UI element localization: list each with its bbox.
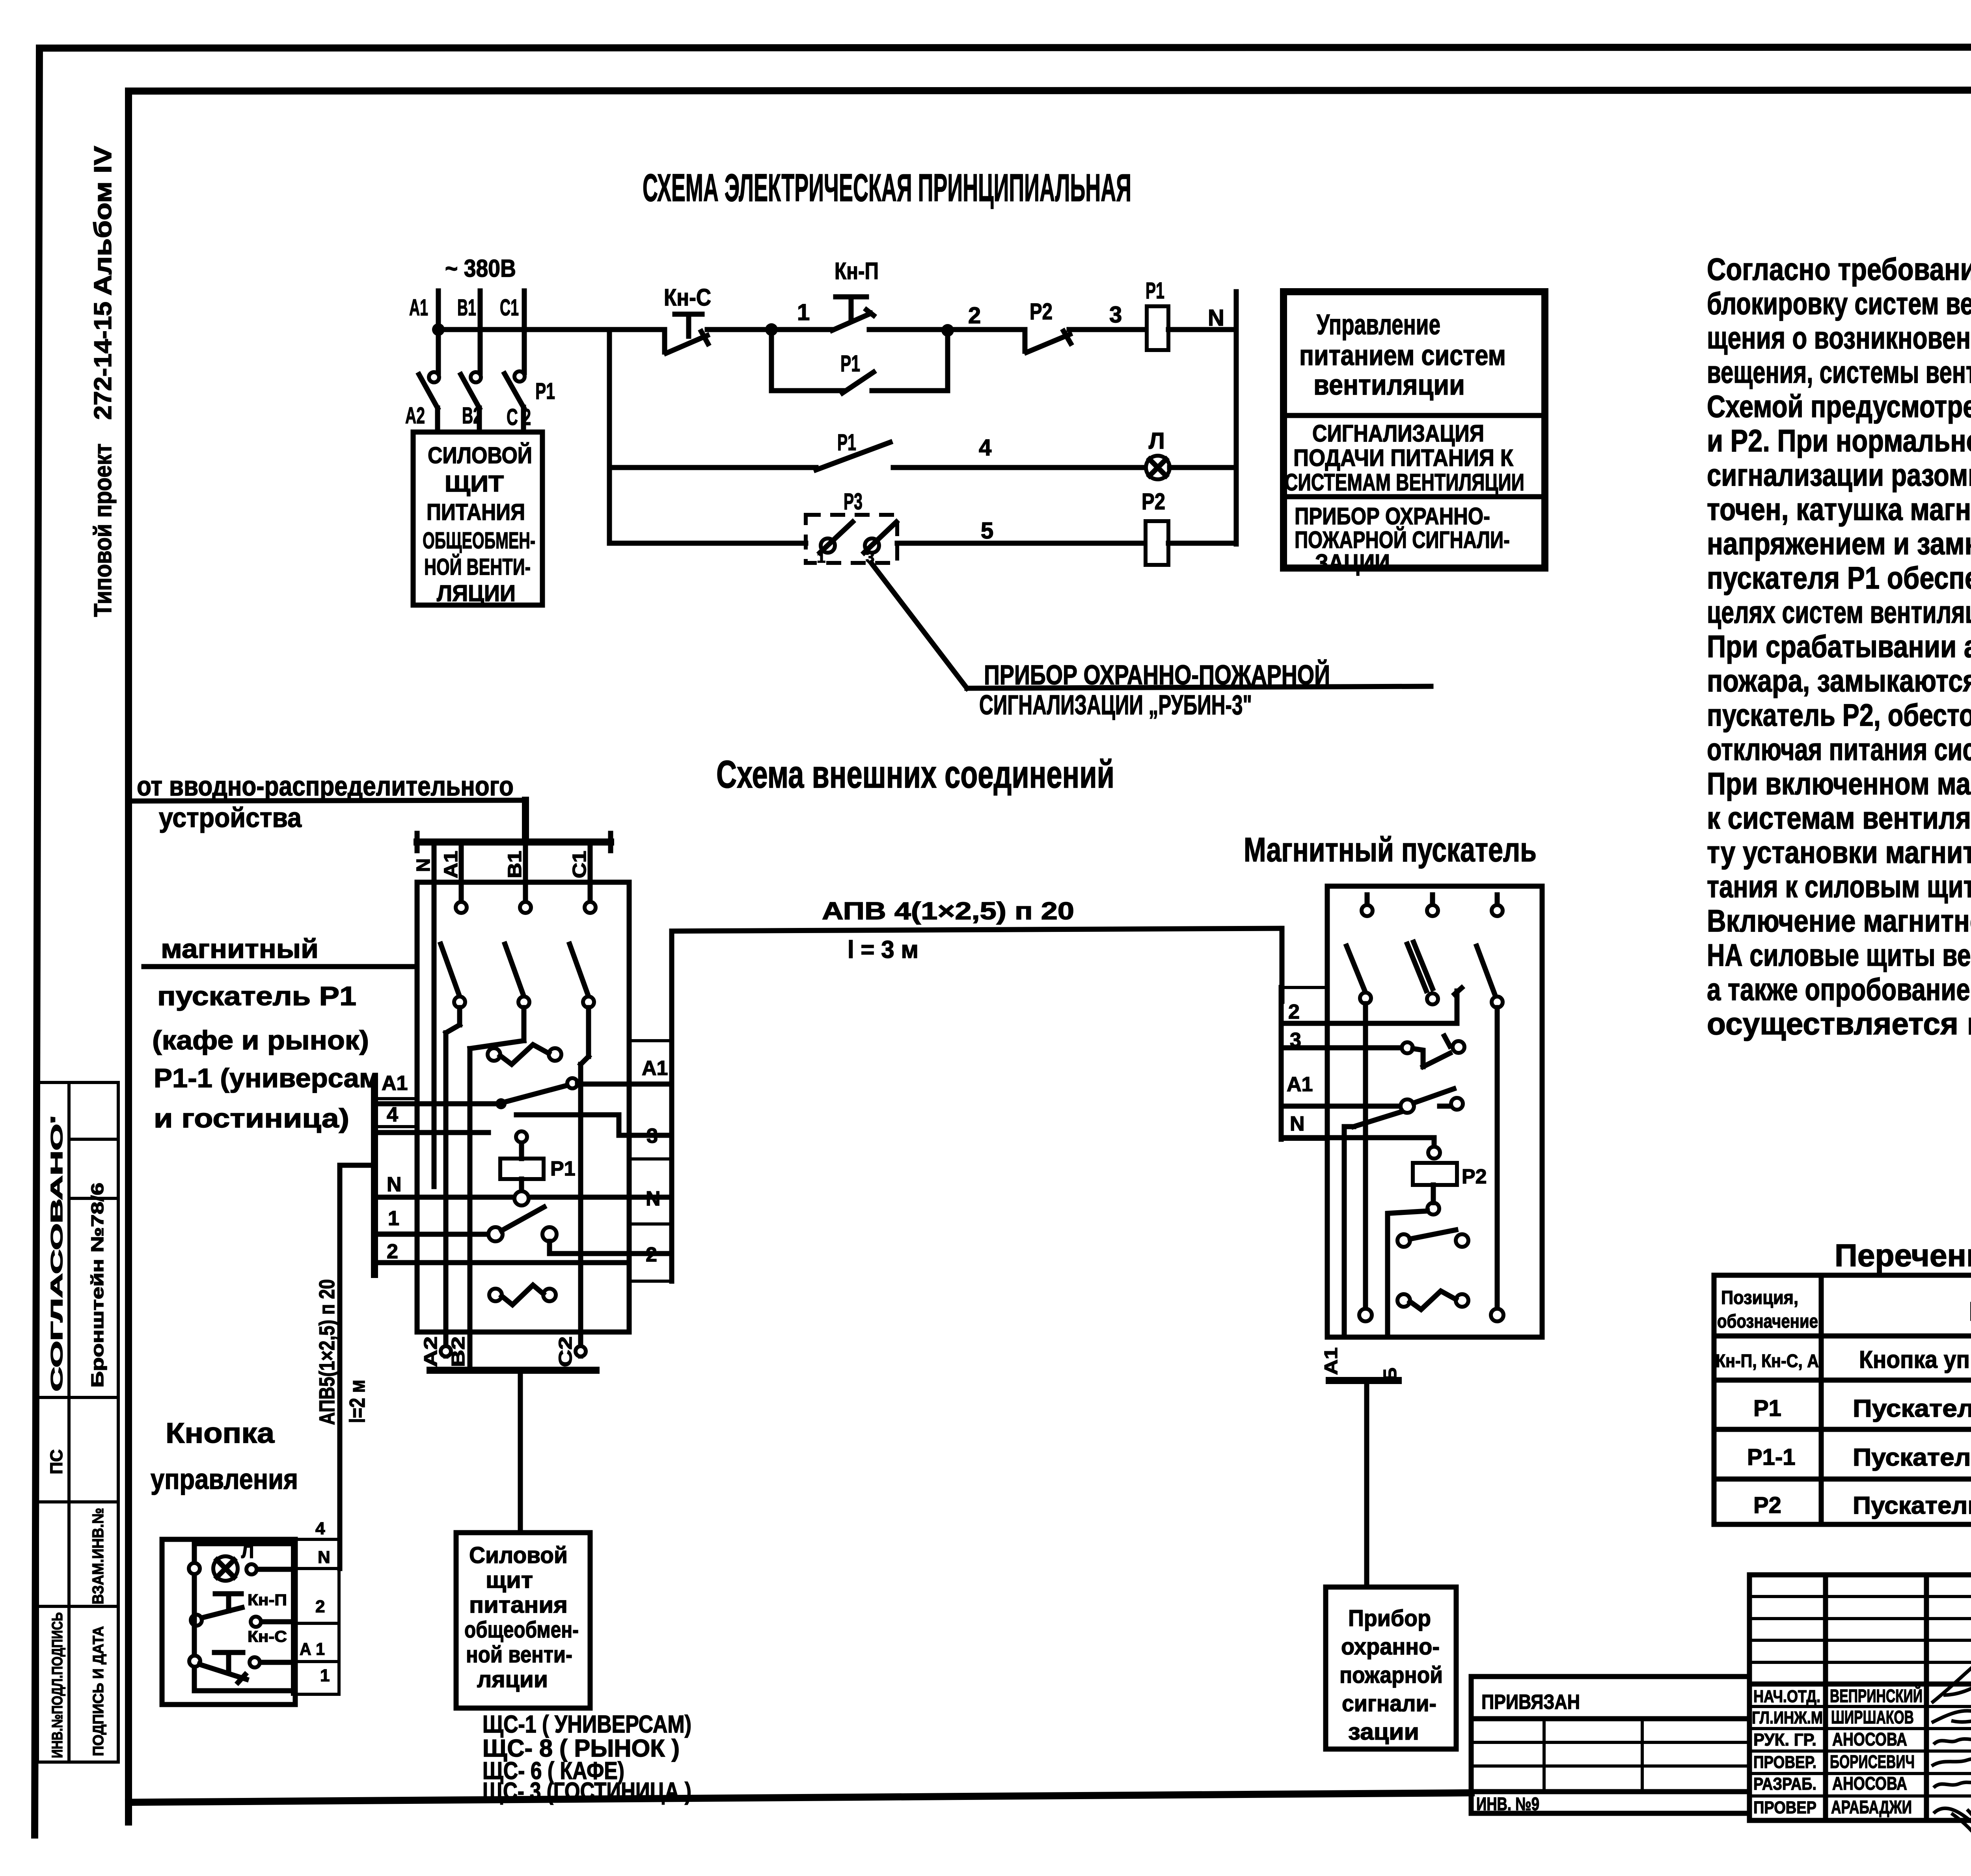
svg-text:щения о возникновении пожара П: щения о возникновении пожара При срабаты…: [1707, 320, 1971, 355]
description text block: [1707, 251, 1971, 1041]
contactor P1 pole C: [505, 371, 555, 432]
svg-text:пускатель Р1: пускатель Р1: [157, 981, 356, 1011]
svg-text:А2: А2: [420, 1336, 441, 1367]
title: Магнитный пускатель: [1244, 831, 1537, 869]
power cabinet box (external scheme): [456, 1533, 590, 1708]
svg-text:Схемой предусмотрена установка: Схемой предусмотрена установка магнитных…: [1707, 389, 1971, 424]
svg-text:Кн-С: Кн-С: [664, 284, 711, 311]
aux contact NO bottom: [1397, 1230, 1468, 1247]
svg-text:ЩИТ: ЩИТ: [445, 471, 504, 497]
svg-text:щит: щит: [486, 1567, 533, 1593]
svg-text:Схема внешних соединений: Схема внешних соединений: [716, 753, 1114, 796]
svg-text:к системам вентиляции постоян: к системам вентиляции постоянно горит ла…: [1707, 800, 1971, 835]
svg-text:Пускатель магнитный: Пускатель магнитный: [1853, 1444, 1971, 1471]
node N: [1208, 305, 1224, 331]
svg-text:4: 4: [979, 435, 991, 460]
bus drop B1: [505, 842, 525, 902]
svg-text:ПС: ПС: [47, 1449, 66, 1474]
svg-text:от вводно-распределительного: от вводно-распределительного: [137, 771, 514, 801]
svg-text:1: 1: [388, 1207, 399, 1230]
svg-text:2: 2: [968, 303, 981, 328]
svg-text:ту установки магнитных пуска: ту установки магнитных пускателей. При о…: [1707, 835, 1971, 870]
svg-text:пожарной: пожарной: [1339, 1662, 1443, 1688]
svg-text:СИСТЕМАМ ВЕНТИЛЯЦИИ: СИСТЕМАМ ВЕНТИЛЯЦИИ: [1285, 469, 1524, 496]
label: Кнопка управления: [151, 1418, 298, 1495]
lamp L: [1146, 428, 1236, 479]
table row Kn-P Kn-C A: [1716, 1346, 1971, 1376]
svg-text:5: 5: [981, 518, 993, 544]
svg-text:охранно-: охранно-: [1341, 1634, 1440, 1660]
aux contact pair bottom: [489, 1285, 556, 1305]
label: from input-distribution device: [134, 771, 525, 833]
net ~380V label: [445, 255, 516, 282]
contactor P1 pole B: [461, 372, 482, 432]
bus drop C1: [569, 842, 590, 902]
svg-text:N: N: [646, 1187, 661, 1210]
control button box: [162, 1539, 295, 1705]
svg-text:2: 2: [1288, 1000, 1300, 1023]
equipment table grid: [1714, 1275, 1971, 1524]
svg-text:1: 1: [817, 549, 825, 566]
svg-text:ЩС-1 ( УНИВЕРСАМ): ЩС-1 ( УНИВЕРСАМ): [483, 1711, 691, 1738]
svg-text:ЩС- 3 (ГОСТИНИЦА ): ЩС- 3 (ГОСТИНИЦА ): [483, 1778, 691, 1805]
button box internal common wire: [194, 1576, 292, 1691]
svg-text:А1: А1: [382, 1072, 408, 1095]
svg-text:питанием систем: питанием систем: [1299, 340, 1506, 371]
svg-text:Альбом IV: Альбом IV: [89, 146, 117, 296]
svg-text:Пускатель магнитный: Пускатель магнитный: [1853, 1492, 1971, 1519]
signatures: [1932, 1600, 1971, 1853]
svg-text:и гостиница): и гостиница): [154, 1103, 349, 1133]
svg-text:С 2: С 2: [507, 404, 531, 430]
bus drop N: [413, 842, 434, 1187]
changeover aux contact row A1: [374, 1078, 672, 1109]
contact P2 (NC): [1025, 299, 1147, 352]
svg-text:2: 2: [387, 1240, 398, 1263]
svg-text:Прибор: Прибор: [1348, 1606, 1431, 1631]
svg-text:ПИТАНИЯ: ПИТАНИЯ: [427, 499, 525, 525]
wire to alarm device: [1364, 1380, 1369, 1587]
svg-text:а также опробование магнитны: а также опробование магнитных пускателей…: [1707, 972, 1971, 1007]
svg-text:N: N: [387, 1173, 402, 1196]
svg-text:точен, катушка магнитного пу: точен, катушка магнитного пускателя Р1 н…: [1707, 492, 1971, 527]
svg-text:напряжением и замкнутые блок: напряжением и замкнутые блоконтакты магн…: [1707, 526, 1971, 561]
svg-text:РАЗРАБ.: РАЗРАБ.: [1753, 1774, 1816, 1794]
svg-text:В1: В1: [505, 851, 525, 878]
table row P1-1: [1747, 1440, 1971, 1481]
list ShchS panels: [483, 1711, 691, 1805]
svg-text:Р1: Р1: [1146, 278, 1164, 304]
table header row: [1717, 1287, 1971, 1332]
svg-text:пускателя Р1 обеспечивают по: пускателя Р1 обеспечивают подачу питания…: [1707, 560, 1971, 595]
svg-text:ИНВ.№ПОДЛ.ПОДПИСЬ: ИНВ.№ПОДЛ.ПОДПИСЬ: [49, 1612, 66, 1758]
svg-text:СИЛОВОЙ: СИЛОВОЙ: [428, 443, 532, 468]
row 3 aux contact: [1283, 1036, 1464, 1067]
coil P1: [1146, 278, 1236, 350]
svg-text:l = 3 м: l = 3 м: [848, 936, 918, 963]
svg-text:Бронштейн №78/6: Бронштейн №78/6: [88, 1183, 107, 1388]
svg-text:Кн-П, Кн-С, А: Кн-П, Кн-С, А: [1716, 1351, 1819, 1371]
svg-text:ляции: ляции: [477, 1667, 548, 1692]
row A1 aux contact NO: [1283, 1089, 1463, 1113]
svg-text:272-14-15: 272-14-15: [89, 302, 117, 420]
svg-text:ОБЩЕОБМЕН-: ОБЩЕОБМЕН-: [423, 528, 535, 553]
svg-text:Р1: Р1: [535, 378, 555, 404]
svg-text:Кн-С: Кн-С: [248, 1628, 287, 1645]
svg-text:СИГНАЛИЗАЦИЯ: СИГНАЛИЗАЦИЯ: [1312, 420, 1484, 447]
starter P2 box: [1327, 886, 1542, 1337]
svg-text:ПРИБОР ОХРАННО-: ПРИБОР ОХРАННО-: [1295, 503, 1490, 529]
margin vertical text: Типовой проект 272-14-15 Альбом IV: [89, 146, 117, 617]
svg-text:Р2: Р2: [1462, 1165, 1487, 1188]
svg-text:устройства: устройства: [159, 802, 302, 833]
svg-text:ПРИБОР ОХРАННО-ПОЖАРНОЙ: ПРИБОР ОХРАННО-ПОЖАРНОЙ: [984, 659, 1330, 690]
title block names: [1830, 1686, 1923, 1817]
starter P1 box: [417, 882, 629, 1332]
svg-text:Перечень приборов и аппарат: Перечень приборов и аппаратуры: [1835, 1238, 1971, 1273]
svg-text:АПВ5(1×2,5) п 20: АПВ5(1×2,5) п 20: [315, 1279, 339, 1425]
starter P1 pole A: [441, 902, 467, 1356]
privyazan box: [1471, 1677, 1749, 1814]
svg-text:вентиляции: вентиляции: [1313, 369, 1465, 401]
svg-text:НАЧ.ОТД.: НАЧ.ОТД.: [1753, 1687, 1820, 1706]
svg-text:Магнитный пускатель: Магнитный пускатель: [1244, 831, 1537, 869]
bus drop A1: [441, 842, 462, 902]
svg-text:ной венти-: ной венти-: [466, 1642, 572, 1667]
svg-text:БОРИСЕВИЧ: БОРИСЕВИЧ: [1830, 1751, 1915, 1772]
svg-text:вещения, системы вентиляции о: вещения, системы вентиляции отключаются: [1707, 354, 1971, 389]
power cabinet box: [413, 432, 542, 606]
svg-text:А1: А1: [1287, 1073, 1313, 1096]
svg-text:l=2 м: l=2 м: [345, 1380, 369, 1423]
wires to bottom bus: [1321, 1347, 1400, 1380]
aux throw lower: [374, 1115, 672, 1135]
outer sheet border left: [35, 48, 39, 1835]
P2 left terminal strip: [1281, 987, 1327, 1139]
cable APV5 to button: [315, 1165, 374, 1569]
label Rubin-3: [979, 659, 1330, 720]
coil P1 in box: [500, 1131, 576, 1191]
P2 pole B: [1407, 895, 1438, 1004]
svg-text:С1: С1: [569, 851, 590, 878]
wire phase A1: [409, 291, 438, 373]
svg-text:тания к силовым щитам венти: тания к силовым щитам вентиляции, лампа …: [1707, 869, 1971, 904]
pushbutton Kn-P (NO): [832, 258, 948, 330]
svg-text:ПОЖАРНОЙ СИГНАЛИ-: ПОЖАРНОЙ СИГНАЛИ-: [1295, 527, 1510, 553]
interconnecting wire APV4: [672, 898, 1282, 1001]
svg-text:Л: Л: [1149, 428, 1165, 454]
P2 pole A: [1347, 895, 1373, 1309]
wire row 5: [609, 518, 993, 544]
svg-text:N: N: [1290, 1112, 1305, 1135]
svg-text:Р1-1: Р1-1: [1747, 1444, 1796, 1470]
svg-text:А1: А1: [642, 1057, 668, 1080]
label: magnetic starter P1: [144, 934, 417, 1133]
svg-text:3: 3: [646, 1125, 658, 1148]
svg-text:При включенном магнитном пус: При включенном магнитном пускателе Р1 и …: [1707, 766, 1971, 801]
svg-text:управления: управления: [151, 1464, 298, 1495]
fire alarm device box: [1326, 1587, 1456, 1749]
svg-text:Позиция,: Позиция,: [1721, 1287, 1798, 1308]
svg-text:СИГНАЛИЗАЦИИ „РУБИН-3": СИГНАЛИЗАЦИИ „РУБИН-3": [979, 689, 1252, 720]
svg-text:Р1-1 (универсам: Р1-1 (универсам: [154, 1063, 380, 1093]
node 2: [948, 303, 1025, 330]
svg-text:В1: В1: [457, 295, 476, 320]
lamp L in button box: [189, 1541, 292, 1581]
svg-text:С1: С1: [500, 295, 519, 320]
contactor P1 pole A: [405, 372, 439, 432]
pushbutton Kn-C (NC): [664, 284, 771, 353]
title: Схема электрическая принципиальная: [643, 166, 1131, 209]
svg-text:РУК. ГР.: РУК. ГР.: [1753, 1730, 1816, 1749]
svg-text:Кн-П: Кн-П: [248, 1591, 287, 1609]
svg-text:Кнопка управления с лампой: Кнопка управления с лампой: [1859, 1346, 1971, 1373]
svg-text:ВЕПРИНСКИЙ: ВЕПРИНСКИЙ: [1830, 1686, 1923, 1706]
button Kn-P in box: [191, 1591, 292, 1627]
svg-text:N: N: [413, 858, 434, 872]
title: Схема внешних соединений: [716, 753, 1114, 796]
svg-text:АНОСОВА: АНОСОВА: [1832, 1773, 1907, 1794]
svg-text:Силовой: Силовой: [469, 1543, 568, 1568]
svg-text:Кнопка: Кнопка: [166, 1418, 275, 1449]
svg-text:N: N: [1208, 305, 1224, 331]
changeover common wire: [1344, 1112, 1402, 1337]
feeder wire: [522, 800, 529, 842]
row 2 wire: [1283, 988, 1462, 1023]
coil P2: [1142, 489, 1236, 565]
svg-text:1: 1: [797, 300, 810, 325]
svg-text:СОГЛАСОВАНО': СОГЛАСОВАНО': [47, 1116, 66, 1392]
svg-text:Согласно требованиям СНиП- 33: Согласно требованиям СНиП- 33-75 п. 1.7 …: [1707, 251, 1971, 287]
svg-text:Кн-П: Кн-П: [835, 258, 879, 284]
svg-text:сигнализации разомкнуты, магни: сигнализации разомкнуты, магнитный пуска…: [1707, 457, 1971, 492]
svg-text:отключая питания систем вен: отключая питания систем вентиляции.: [1707, 732, 1971, 767]
node junction 1: [765, 300, 832, 336]
svg-text:Р2: Р2: [1142, 489, 1165, 514]
equipment table title: [1835, 1238, 1971, 1273]
row N wire to coil: [1283, 1138, 1440, 1159]
svg-text:Р1: Р1: [1753, 1395, 1781, 1421]
aux contact NO mid: [488, 1045, 561, 1064]
svg-text:Пускатель магнитный: Пускатель магнитный: [1853, 1395, 1971, 1422]
svg-text:Р2: Р2: [1030, 299, 1053, 324]
svg-text:ИНВ. №9: ИНВ. №9: [1476, 1794, 1539, 1814]
svg-text:С2: С2: [555, 1336, 576, 1367]
button Kn-C in box: [189, 1628, 292, 1682]
main control rail: [432, 323, 665, 336]
supply bus bar: [417, 833, 611, 851]
svg-text:ВЗАМ.ИНВ.№: ВЗАМ.ИНВ.№: [89, 1508, 107, 1604]
wire row 4 left: [609, 330, 816, 543]
svg-text:В2: В2: [462, 403, 482, 428]
right terminal strip of P1 box: [629, 931, 672, 1281]
svg-text:А1: А1: [409, 295, 428, 320]
svg-text:ПОДАЧИ ПИТАНИЯ К: ПОДАЧИ ПИТАНИЯ К: [1293, 445, 1513, 471]
svg-text:ГЛ.ИНЖ.М: ГЛ.ИНЖ.М: [1752, 1708, 1823, 1727]
svg-text:общеобмен-: общеобмен-: [464, 1617, 579, 1643]
outer sheet border top: [39, 47, 1971, 48]
title block role labels: [1752, 1687, 1823, 1817]
svg-text:питания: питания: [469, 1592, 568, 1618]
function boxes right: [1284, 292, 1545, 576]
svg-text:Управление: Управление: [1317, 309, 1440, 341]
button box terminal strip: [292, 1519, 339, 1694]
coil P2 in box: [1388, 1163, 1487, 1337]
svg-text:пускатель Р2, обесточивается м: пускатель Р2, обесточивается магнитный п…: [1707, 697, 1971, 732]
svg-text:и Р2. При нормальной работе: и Р2. При нормальной работе контакты при…: [1707, 423, 1971, 458]
svg-text:ПОДПИСЬ И ДАТА: ПОДПИСЬ И ДАТА: [90, 1626, 107, 1756]
svg-text:N: N: [318, 1548, 330, 1567]
svg-text:обозначение: обозначение: [1717, 1311, 1818, 1332]
contact P3 fire-alarm (dashed box): [806, 489, 1146, 566]
contact P1 row 4: [816, 430, 1146, 470]
starter P1 pole B: [470, 902, 531, 1370]
svg-text:НА силовые щиты вентиляции п: НА силовые щиты вентиляции после ликвида…: [1707, 937, 1971, 972]
row 1 contact NO: [374, 1207, 672, 1254]
svg-text:3: 3: [1109, 302, 1122, 328]
svg-text:ПРОВЕР: ПРОВЕР: [1753, 1798, 1816, 1817]
svg-text:1: 1: [320, 1666, 330, 1685]
svg-text:осуществляется кнопкой Кн-С: осуществляется кнопкой Кн-С, Кн-П.: [1707, 1006, 1971, 1041]
svg-text:сигнали-: сигнали-: [1342, 1691, 1436, 1716]
svg-text:АРАБАДЖИ: АРАБАДЖИ: [1831, 1797, 1912, 1817]
contact P1 self-hold branch: [771, 324, 954, 393]
svg-text:Р1: Р1: [840, 351, 860, 376]
wire phase C1: [500, 291, 524, 373]
svg-text:Включение магнитного пускател: Включение магнитного пускателя Р1 И пода…: [1707, 903, 1971, 938]
title block frame: [1749, 1575, 1971, 1820]
svg-text:целях систем вентиляции.: целях систем вентиляции.: [1707, 594, 1971, 630]
svg-text:АНОСОВА: АНОСОВА: [1832, 1729, 1907, 1749]
svg-text:ЗАЦИИ: ЗАЦИИ: [1315, 550, 1390, 576]
margin stamp table bottom-left: [37, 1082, 118, 1762]
svg-text:Наименование: Наименование: [1969, 1297, 1971, 1326]
svg-text:2: 2: [646, 1243, 657, 1266]
svg-text:НОЙ ВЕНТИ-: НОЙ ВЕНТИ-: [424, 554, 531, 580]
P2 pole C: [1477, 895, 1503, 1309]
wire phase B1: [457, 291, 480, 373]
svg-text:При срабатывании автоматическ: При срабатывании автоматической системы …: [1707, 629, 1971, 664]
svg-text:4: 4: [387, 1103, 398, 1126]
table row P2: [1753, 1488, 1971, 1529]
aux contact NC bottom: [1397, 1291, 1468, 1310]
svg-text:2: 2: [315, 1597, 325, 1616]
svg-text:А2: А2: [405, 403, 425, 428]
svg-text:пожара, замыкаются их контакты: пожара, замыкаются их контакты, включает…: [1707, 663, 1971, 698]
svg-text:В2: В2: [448, 1336, 468, 1367]
svg-text:Типовой проект: Типовой проект: [89, 443, 117, 617]
svg-text:~ 380В: ~ 380В: [445, 255, 516, 282]
svg-text:АПВ 4(1×2,5) п 20: АПВ 4(1×2,5) п 20: [822, 898, 1074, 925]
callout leader to Rubin-3: [871, 563, 1431, 688]
svg-text:ПРОВЕР.: ПРОВЕР.: [1753, 1753, 1816, 1772]
left terminal strip of P1 box: [374, 1072, 417, 1274]
table row P1: [1753, 1390, 1971, 1431]
svg-text:Р1: Р1: [550, 1157, 576, 1180]
svg-text:А1: А1: [441, 851, 462, 878]
svg-text:магнитный: магнитный: [161, 934, 319, 964]
svg-text:зации: зации: [1348, 1719, 1419, 1745]
svg-text:4: 4: [315, 1519, 325, 1538]
svg-text:блокировку систем вентиляции: блокировку систем вентиляции с автоматич…: [1707, 286, 1971, 321]
right rail N: [1234, 292, 1239, 544]
bottom terminals: [1359, 1309, 1503, 1321]
svg-text:(кафе и рынок): (кафе и рынок): [152, 1025, 369, 1055]
svg-text:А1: А1: [1321, 1347, 1341, 1375]
wire from bus to power cabinet: [518, 1370, 523, 1533]
row 2 wire: [374, 1260, 629, 1265]
svg-text:ПРИВЯЗАН: ПРИВЯЗАН: [1481, 1691, 1580, 1714]
row N through box: [374, 1191, 672, 1205]
svg-text:ЛЯЦИИ: ЛЯЦИИ: [437, 581, 516, 606]
svg-text:ШИРШАКОВ: ШИРШАКОВ: [1831, 1707, 1914, 1727]
node 3: [1109, 302, 1122, 328]
svg-text:А 1: А 1: [300, 1639, 325, 1659]
svg-text:Р1: Р1: [837, 430, 856, 455]
svg-text:СХЕМА ЭЛЕКТРИЧЕСКАЯ ПРИНЦИ: СХЕМА ЭЛЕКТРИЧЕСКАЯ ПРИНЦИПИАЛЬНАЯ: [643, 166, 1131, 209]
svg-text:Р3: Р3: [844, 489, 863, 514]
bottom bus of P1 box: [420, 1336, 596, 1370]
svg-text:Р2: Р2: [1753, 1492, 1781, 1518]
starter P1 pole C: [570, 902, 596, 1356]
